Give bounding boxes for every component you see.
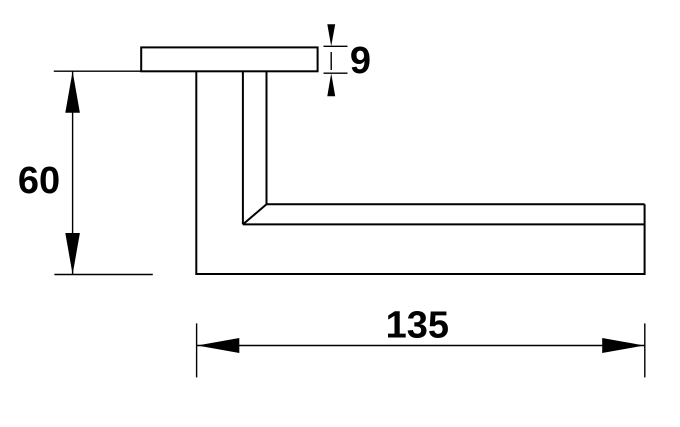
svg-text:135: 135 (386, 304, 449, 346)
dim 135: left arrowhead (197, 338, 239, 353)
lever middle edge (243, 223, 645, 225)
dim 60: upper arrowhead (65, 71, 80, 113)
dim 135: left extension line (196, 323, 198, 377)
dim 9: middle segment (330, 52, 332, 70)
dim 135: right arrowhead (602, 338, 644, 353)
svg-text:9: 9 (350, 40, 371, 82)
dim 60: dimension line (72, 71, 74, 274)
dim 9: bottom tick line (324, 72, 348, 74)
neck middle vertical edge (242, 71, 244, 224)
dim 9: lower arrowhead (points up) (327, 73, 335, 96)
dim 60: bottom extension line (54, 274, 152, 276)
svg-text:60: 60 (18, 160, 60, 202)
dim 60: lower arrowhead (65, 233, 80, 275)
lever top edge (267, 203, 645, 205)
dim 135: dimension line (197, 345, 645, 347)
bend chamfer diagonal (243, 204, 267, 224)
dim 9: upper arrowhead (points down) (327, 24, 335, 46)
neck right vertical edge (266, 71, 268, 204)
handle outer contour (neck left edge, lever bottom, lever right end) (196, 71, 644, 274)
dim 9: top tick line (324, 45, 348, 47)
dim 60: top extension line (54, 70, 141, 72)
dim 135: right extension line (644, 323, 646, 377)
rose plate (top rectangle of handle) (141, 47, 317, 71)
